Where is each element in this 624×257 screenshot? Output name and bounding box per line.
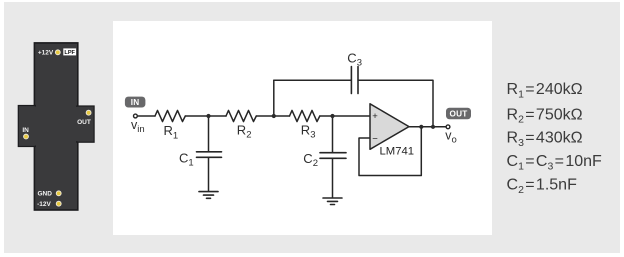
wire vin to R1: [138, 115, 155, 117]
module body (dark filter module): [18, 43, 94, 210]
resistor R2: [226, 110, 256, 121]
svg-text:R2 = 750kΩ: R2 = 750kΩ: [507, 106, 583, 125]
OUT badge: [446, 108, 471, 120]
wire R3 to node C: [320, 115, 333, 117]
svg-text:R3 = 430kΩ: R3 = 430kΩ: [507, 130, 583, 149]
svg-text:R1 = 240kΩ: R1 = 240kΩ: [507, 81, 583, 100]
wire op-amp minus input feedback loop: [359, 127, 421, 176]
junction node B: [272, 114, 276, 118]
resistor R1: [155, 110, 185, 121]
OUT jack: [86, 110, 92, 116]
wire C1 to ground: [208, 158, 210, 192]
IN badge: [125, 97, 145, 108]
+12V jack: [55, 49, 61, 55]
junction node C: [330, 114, 334, 118]
svg-text:IN: IN: [22, 127, 29, 134]
module right tab: [77, 106, 94, 142]
wire R2 to node B: [256, 115, 274, 117]
svg-text:+12V: +12V: [38, 50, 54, 57]
junction feedback/output: [419, 125, 423, 129]
wire node A down to C1: [208, 116, 210, 151]
svg-text:GND: GND: [37, 191, 52, 198]
capacitor C3: [350, 67, 352, 94]
svg-text:-12V: -12V: [37, 201, 51, 208]
wire node A to R2: [209, 115, 227, 117]
junction C3/output: [431, 125, 435, 129]
LPF label box: [63, 48, 76, 55]
-12V jack: [56, 201, 62, 207]
wire node B up to feedback rail: [273, 80, 275, 116]
svg-text:IN: IN: [131, 98, 140, 107]
wire op-amp output: [409, 126, 446, 128]
svg-text:LPF: LPF: [64, 50, 75, 56]
module left tab: [18, 106, 35, 147]
output node vo: [446, 125, 450, 129]
wire node B to R3: [274, 115, 290, 117]
ground (C2): [323, 197, 342, 199]
svg-text:OUT: OUT: [77, 119, 91, 126]
IN jack: [23, 134, 29, 140]
component values text: [507, 81, 603, 196]
ground (C1): [199, 191, 218, 193]
svg-text:LM741: LM741: [380, 146, 415, 158]
GND jack: [56, 190, 62, 196]
wire node C to op-amp + input: [333, 115, 371, 117]
resistor R3: [290, 110, 320, 121]
wire feedback rail to C3: [274, 79, 351, 81]
wire R1 to node A: [185, 115, 208, 117]
capacitor C2: [320, 152, 346, 154]
svg-text:+: +: [372, 111, 378, 122]
wire node C down to C2: [332, 116, 334, 152]
input node vin: [134, 114, 138, 118]
svg-text:OUT: OUT: [450, 110, 468, 119]
op-amp U1 LM741: [370, 104, 409, 150]
white schematic card: [113, 21, 492, 235]
capacitor C1: [197, 151, 222, 153]
svg-text:−: −: [372, 134, 378, 145]
svg-text:C2 = 1.5nF: C2 = 1.5nF: [507, 176, 578, 195]
wire C2 to ground: [332, 159, 334, 198]
junction node A: [206, 114, 210, 118]
wire C3 to output branch: [358, 80, 433, 127]
